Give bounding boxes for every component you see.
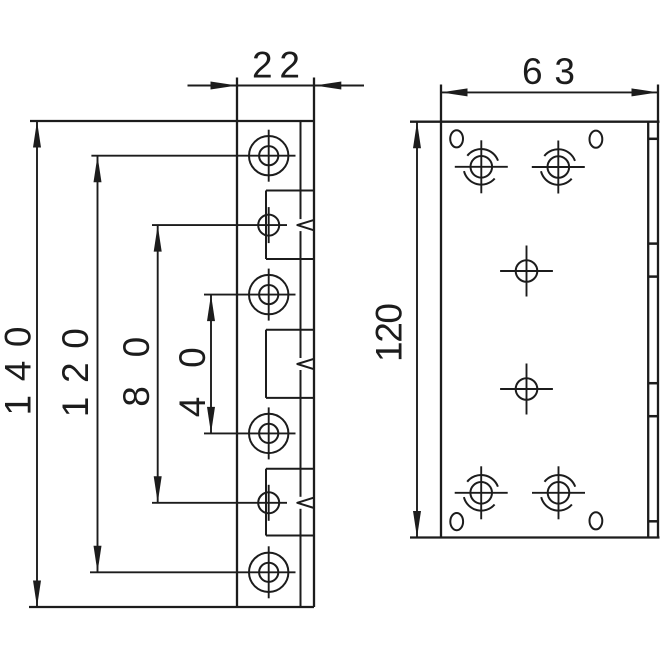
- tab cutout 2: [265, 330, 267, 398]
- big hole 4 left view: [249, 553, 288, 592]
- corner hole 4 right view: [548, 482, 570, 504]
- V notch 1: [297, 220, 314, 230]
- corner hole 2 right view: [548, 156, 570, 178]
- big hole 2 left view: [249, 275, 288, 314]
- left view plate left edge with 22 extension: [236, 78, 238, 608]
- right view plate bottom edge with 120 extension: [410, 536, 660, 538]
- V notch 3: [297, 498, 314, 508]
- small screw hole 1 right view: [450, 130, 463, 147]
- middle hole 1 right view: [516, 260, 538, 282]
- small screw hole 4 right view: [590, 512, 603, 529]
- middle hole 2 right view: [516, 378, 538, 400]
- dimension 120 line left view: [97, 156, 99, 573]
- right view hinge strip outer edge with 63 extension: [657, 85, 659, 538]
- svg-text:120: 120: [369, 303, 410, 362]
- left view plate bottom edge with 140 extension: [29, 606, 314, 608]
- svg-text:120: 120: [55, 328, 96, 417]
- small screw hole 2 right view: [590, 131, 603, 148]
- corner hole 1 right view: [471, 156, 493, 178]
- small hole 1 left view: [258, 215, 279, 236]
- hinge strip tick marks: [648, 138, 658, 141]
- svg-text:22: 22: [252, 45, 300, 86]
- svg-text:63: 63: [522, 51, 575, 92]
- tab cutout 3: [265, 469, 267, 536]
- left view plate top edge with 140 extension: [30, 120, 314, 122]
- small hole 2 left view: [258, 492, 279, 513]
- tab cutout 1: [265, 191, 267, 260]
- small screw hole 3 right view: [450, 513, 463, 530]
- V notch 2: [297, 359, 314, 369]
- left view plate right edge with 22 extension: [313, 78, 315, 608]
- corner hole 3 right view: [470, 482, 492, 504]
- dimension 63 line: [441, 91, 658, 93]
- dimension 22 line: [188, 85, 365, 87]
- svg-text:80: 80: [116, 337, 157, 407]
- right view plate top edge with 120 extension: [410, 121, 660, 123]
- svg-text:40: 40: [172, 347, 213, 417]
- big hole 3 left view: [249, 414, 288, 453]
- dimension 140 line: [36, 121, 38, 607]
- svg-text:140: 140: [0, 327, 39, 416]
- dimension 40 line: [210, 295, 212, 434]
- right view plate right edge: [647, 122, 649, 538]
- big hole 1 left view: [249, 136, 288, 175]
- dimension 120 line right view: [416, 122, 418, 538]
- left view fold line: [300, 121, 302, 219]
- dimension 80 line: [157, 225, 159, 503]
- right view plate left edge with 63 extension: [440, 85, 442, 538]
